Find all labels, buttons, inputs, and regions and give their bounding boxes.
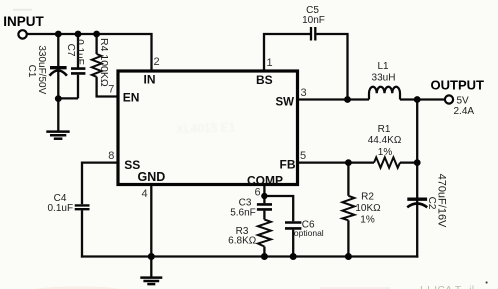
wire C3 to R3	[263, 211, 265, 220]
capacitor C5	[311, 27, 315, 41]
svg-text:33uH: 33uH	[372, 73, 396, 84]
svg-text:44.4KΩ: 44.4KΩ	[368, 135, 402, 146]
wire R1 right to C2 node	[400, 161, 417, 163]
svg-text:470uF/16V: 470uF/16V	[436, 174, 448, 228]
svg-text:0.1uF: 0.1uF	[74, 39, 85, 65]
capacitor C6	[285, 223, 301, 229]
svg-text:2.4A: 2.4A	[454, 106, 475, 117]
svg-text:10nF: 10nF	[302, 15, 325, 26]
wire R2 bottom	[347, 220, 349, 256]
svg-text:SW: SW	[276, 97, 295, 109]
capacitor C4	[75, 205, 90, 209]
svg-text:optional: optional	[294, 228, 324, 238]
ground (below GND pin 4)	[140, 257, 162, 285]
svg-text:8: 8	[108, 150, 114, 162]
svg-text:XL4015 E1: XL4015 E1	[176, 120, 236, 136]
svg-text:COMP: COMP	[247, 173, 283, 187]
svg-text:5V: 5V	[457, 95, 470, 106]
wire FB to R2	[347, 163, 349, 196]
wire C6 bottom	[292, 230, 294, 257]
svg-text:EN: EN	[123, 91, 140, 105]
svg-text:INPUT: INPUT	[3, 14, 44, 29]
svg-text:6: 6	[255, 187, 261, 199]
wire L1 to output	[400, 98, 444, 100]
wire C1 branch	[57, 34, 59, 131]
svg-text:R4 100KΩ: R4 100KΩ	[98, 38, 110, 87]
wire COMP pin6 to C3	[263, 184, 265, 203]
svg-text:2: 2	[154, 56, 160, 68]
capacitor C7	[71, 69, 85, 74]
wire C4 bottom	[81, 210, 83, 257]
wire SS pin8 to C4	[82, 163, 117, 205]
svg-text:OUTPUT: OUTPUT	[431, 77, 485, 92]
resistor R1	[374, 157, 400, 167]
capacitor C3	[257, 204, 272, 209]
inductor L1	[369, 87, 400, 100]
svg-text:5.6nF: 5.6nF	[230, 208, 256, 219]
bottom edge artifacts	[13, 9, 32, 11]
svg-text:0.1uF: 0.1uF	[48, 203, 74, 214]
ground (input, below C1)	[46, 132, 69, 139]
svg-text:C1: C1	[26, 65, 37, 78]
svg-text:10KΩ: 10KΩ	[355, 203, 381, 214]
svg-text:1%: 1%	[360, 215, 375, 226]
svg-text:C2: C2	[426, 197, 437, 210]
svg-text:5: 5	[300, 150, 306, 162]
svg-text:IN: IN	[144, 73, 156, 87]
svg-text:R2: R2	[361, 192, 374, 203]
wire input top rail	[27, 34, 151, 71]
node junction dots	[55, 31, 421, 260]
node input terminal	[18, 30, 26, 38]
svg-text:3: 3	[301, 87, 307, 99]
wire GND pin4	[150, 184, 152, 257]
resistor R4	[92, 54, 102, 77]
svg-text:1: 1	[267, 57, 273, 69]
svg-text:I·I·ICA T··il: I·I·ICA T··il	[420, 285, 475, 289]
wire output down branch	[416, 100, 418, 163]
wire COMP to C6	[264, 196, 293, 221]
wire SW pin3	[299, 98, 369, 100]
wire C7 branch	[77, 34, 79, 68]
node output terminal	[445, 95, 453, 103]
capacitor C1 (polarized)	[50, 66, 67, 69]
svg-text:FB: FB	[280, 158, 296, 172]
resistor R3	[258, 220, 271, 247]
wire ground bus	[81, 255, 418, 257]
wire C5 right to SW node	[316, 34, 347, 100]
IC U1 box	[118, 71, 298, 185]
svg-text:1%: 1%	[378, 147, 393, 158]
wire pin1 BS to C5	[264, 34, 310, 71]
svg-text:BS: BS	[256, 73, 273, 87]
svg-text:R1: R1	[378, 124, 391, 135]
svg-text:4: 4	[142, 188, 148, 200]
capacitor C2 (polarized)	[407, 197, 427, 200]
wire R4 branch	[95, 34, 97, 54]
svg-text:L1: L1	[377, 61, 389, 72]
wire FB pin5	[298, 161, 374, 163]
svg-text:6.8KΩ: 6.8KΩ	[228, 236, 257, 247]
resistor R2	[342, 196, 354, 221]
svg-text:330uF/50V: 330uF/50V	[36, 45, 47, 94]
svg-text:GND: GND	[138, 170, 166, 184]
wire C2 through	[416, 163, 418, 258]
wire R3 bottom	[263, 247, 265, 257]
